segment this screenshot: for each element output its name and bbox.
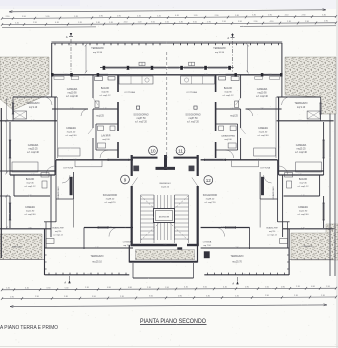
svg-text:4.10: 4.10 [55,22,59,24]
svg-text:a.f. mq2.40: a.f. mq2.40 [256,96,268,98]
left edge wall stubs [0,195,10,197]
terrace left wall ticks [45,254,47,256]
svg-text:2.90: 2.90 [235,247,238,249]
svg-text:4.10: 4.10 [124,22,128,24]
loggia wall y=227.5 [84,227,133,229]
svg-text:mq37.50: mq37.50 [188,118,198,120]
furniture in terrazzo [14,111,27,119]
facade window jambs (dark) [228,66,230,70]
svg-text:mq2.00: mq2.00 [102,139,110,141]
svg-text:BAGNO: BAGNO [299,178,308,181]
party wall y=171 left part [278,170,324,172]
svg-text:2.90: 2.90 [245,286,249,288]
svg-text:a.f. mq7.20: a.f. mq7.20 [135,121,147,123]
unit number 12 [204,176,213,185]
unit number 11 [176,146,185,155]
bagno fixtures [231,77,239,81]
svg-text:1.50: 1.50 [108,227,111,229]
svg-text:5.30: 5.30 [235,15,239,17]
camera 15.25 bottom / party wall [10,174,55,176]
camera 11.80 [323,196,325,228]
svg-text:2.10: 2.10 [137,15,141,17]
svg-text:1.50: 1.50 [164,157,167,159]
svg-text:2.10: 2.10 [6,16,10,18]
svg-text:1.20: 1.20 [109,22,113,24]
facade jamb blobs [280,73,282,76]
svg-text:4.10: 4.10 [285,14,289,16]
facade window glazing segments [106,66,126,68]
svg-text:5.20: 5.20 [28,195,31,197]
svg-text:5.30: 5.30 [46,16,50,18]
terrace width dim line [85,45,87,72]
svg-text:mq10.90: mq10.90 [257,92,267,94]
svg-text:2.90: 2.90 [28,228,31,230]
door arcs left unit [282,97,290,105]
svg-text:CAMERA: CAMERA [67,88,78,91]
left vertical dim line lower [6,196,8,228]
wardrobe camera 14.20 [254,148,276,156]
svg-text:1.20: 1.20 [301,195,304,197]
svg-text:a.f. mq2.40: a.f. mq2.40 [295,152,307,154]
svg-text:4.10: 4.10 [223,287,227,289]
small box at terrace left corner [46,239,54,244]
svg-text:5.30: 5.30 [322,14,326,16]
core right wall [197,155,199,176]
svg-text:a.f. mq7.20: a.f. mq7.20 [205,202,217,204]
stair dashed diagonals [141,196,188,240]
svg-text:TERRAZZO: TERRAZZO [91,47,104,50]
core bottom wall [131,244,178,246]
svg-text:TERRAZZO: TERRAZZO [295,102,308,105]
terrace left wall [51,43,53,75]
party wall y=171 left part [10,170,56,172]
party wall y=160 [56,159,133,161]
loggia/terrace edge y=248 [45,247,85,249]
svg-text:2.10: 2.10 [294,295,298,297]
svg-text:mq3.25: mq3.25 [230,116,238,118]
svg-text:mq37.50: mq37.50 [136,118,146,120]
bottom edge faint line [0,346,338,348]
central stair core [129,52,209,278]
svg-text:1.20: 1.20 [74,16,78,18]
radiator sills below facade [270,76,280,79]
svg-text:2.90: 2.90 [117,15,121,17]
svg-text:mq14.30: mq14.30 [259,131,268,133]
terrace top parapet with posts [51,42,166,44]
disimpegno corridor walls [277,160,279,222]
section marker A bottom-right [237,277,239,285]
stair stringer verticals [140,195,142,243]
svg-text:LOGGIA: LOGGIA [203,241,212,244]
svg-text:a.f. mq1.12: a.f. mq1.12 [267,234,277,236]
svg-text:mq38.20: mq38.20 [206,198,215,200]
svg-text:mq38.20: mq38.20 [106,198,115,200]
bottom terrace outline [204,274,289,276]
furniture in terrazzo [307,111,320,119]
svg-text:2.10: 2.10 [287,21,291,23]
svg-text:5.30: 5.30 [179,21,183,23]
dark box right of hatch band [204,252,210,259]
bottom terrace outline [45,274,130,276]
wardrobe camera 15.25 [12,162,38,172]
lav fixtures [230,126,236,131]
stair treads left flight [141,194,155,196]
svg-text:3.50: 3.50 [298,120,301,122]
svg-text:TERRAZZO: TERRAZZO [91,255,104,258]
core top walls [132,157,158,159]
corridor wall x=55 [278,97,280,175]
svg-text:1.20: 1.20 [194,15,198,17]
svg-text:mq7.45: mq7.45 [26,182,34,184]
small box at terrace left corner [280,239,288,244]
svg-text:4.10: 4.10 [25,287,29,289]
svg-text:5.20: 5.20 [31,174,34,176]
svg-text:2.40: 2.40 [164,167,167,169]
svg-text:5.20: 5.20 [70,108,73,110]
elevator box [154,209,175,223]
svg-text:2.10: 2.10 [296,286,300,288]
svg-text:3.50: 3.50 [238,21,242,23]
svg-text:DISIMPEGNO: DISIMPEGNO [58,186,60,200]
central lower box walls [128,245,130,263]
svg-text:a.f. mq2.40: a.f. mq2.40 [258,135,270,137]
svg-text:mq 7.90: mq 7.90 [203,245,211,247]
svg-text:3.50: 3.50 [149,296,153,298]
svg-text:2.90: 2.90 [268,74,271,76]
svg-text:a.f. mq2.40: a.f. mq2.40 [27,152,39,154]
svg-text:LOGGIA: LOGGIA [123,241,132,244]
svg-text:2.40: 2.40 [298,174,301,176]
svg-text:a.f. mq7.20: a.f. mq7.20 [187,121,199,123]
left upper wing [281,75,283,97]
terrazzo 9.10 bottom wall [0,120,57,122]
svg-text:CAMERA: CAMERA [298,206,308,209]
core left wall [131,155,133,176]
svg-text:2.90: 2.90 [64,74,67,76]
section marker A bottom-left [69,276,71,284]
svg-text:10: 10 [150,148,156,153]
svg-text:COTTURA: COTTURA [63,167,74,170]
scanner tint top [0,0,338,9]
svg-text:mq11.90: mq11.90 [299,210,308,212]
terrace bottom rail ticks [48,273,50,275]
svg-text:mq 9.10: mq 9.10 [29,107,38,109]
svg-text:2.40: 2.40 [126,74,129,76]
svg-text:COTTURA: COTTURA [186,91,197,94]
svg-text:mq7.20: mq7.20 [55,231,61,233]
terrace left wall ticks [287,254,289,256]
svg-text:mq15.10: mq15.10 [161,186,170,188]
small square symbol soggiorno [137,106,140,109]
svg-text:mq11.80: mq11.80 [26,210,35,212]
bagno fixtures [95,77,103,81]
core T-wall top [164,155,167,170]
left vertical dim line upper [6,99,8,173]
svg-text:mq 31.90: mq 31.90 [215,52,225,54]
svg-text:TERRAZZO: TERRAZZO [231,255,244,258]
svg-text:2.90: 2.90 [254,21,258,23]
svg-text:mq5.90: mq5.90 [101,91,109,93]
svg-text:SOGGIORNO: SOGGIORNO [103,195,118,197]
svg-text:4.10: 4.10 [175,15,179,17]
camera 15.25 bottom / party wall [279,174,324,176]
camera 11.80 [9,196,11,228]
svg-text:SOGGIORNO: SOGGIORNO [203,195,218,197]
svg-text:mq 25.70: mq 25.70 [232,262,242,264]
left upper wing [51,75,53,97]
terrace slab edge / window line y=67.6 [100,67,167,69]
svg-text:1.50: 1.50 [165,287,169,289]
kitchen counter u10 [181,76,215,84]
svg-text:2.90: 2.90 [260,108,263,110]
svg-text:1.20: 1.20 [6,288,10,290]
svg-text:0.90: 0.90 [281,286,285,288]
svg-text:3.50: 3.50 [193,21,197,23]
svg-text:BAGNO: BAGNO [224,87,233,90]
svg-text:4.10: 4.10 [184,287,188,289]
svg-text:2.10: 2.10 [85,287,89,289]
svg-text:1.50: 1.50 [165,22,169,24]
central dashed axis line [166,52,168,160]
dark boxes core upper corners [134,166,139,171]
svg-text:SOGGIORNO: SOGGIORNO [185,114,200,117]
stair treads top connector [153,195,155,208]
terrace left wall [44,229,46,275]
wall y=109 under camera/bagno [52,108,88,110]
svg-text:CAMERA: CAMERA [66,127,76,130]
svg-text:COTTURA: COTTURA [260,167,271,170]
hatched strip below core [136,250,195,260]
svg-text:a.f. mq1.12: a.f. mq1.12 [25,186,37,188]
svg-text:1.50: 1.50 [265,286,269,288]
svg-text:5.20: 5.20 [242,274,245,276]
central protrusion outline [132,263,134,278]
svg-text:2.10: 2.10 [321,295,325,297]
svg-text:4.10: 4.10 [73,159,76,161]
svg-text:5.20: 5.20 [163,244,166,246]
stipple area top-right (garden) [285,57,336,114]
kitchen counter unit 9 [75,166,102,168]
svg-text:3.50: 3.50 [151,22,155,24]
central box bottom band [129,261,197,263]
loggia wall y=227.5 [201,227,250,229]
garden bottom line [0,259,44,261]
bagno 7.45 walls [319,175,321,196]
top dimension ruler 3 [1,21,337,26]
svg-text:PIANTA PIANO SECONDO: PIANTA PIANO SECONDO [140,318,206,325]
kitchen counter u10 [119,76,153,84]
svg-text:CAMERA: CAMERA [25,206,35,209]
svg-text:mq 31.90: mq 31.90 [93,52,103,54]
svg-text:mq15.25: mq15.25 [28,148,38,150]
svg-text:2.90: 2.90 [33,22,37,24]
svg-text:SOGGIORNO: SOGGIORNO [133,114,148,117]
svg-text:1.20: 1.20 [235,295,239,297]
svg-text:a.f. mq1.12: a.f. mq1.12 [298,186,310,188]
svg-text:5.20: 5.20 [95,247,98,249]
svg-text:CAMERA: CAMERA [257,88,268,91]
svg-text:mq 9.10: mq 9.10 [297,107,306,109]
wall between camera10.90 and bagno [92,75,94,98]
thick wall x=118 soggiorno side [215,75,217,92]
stove black bar unit 9 [261,177,264,195]
terrace width dim line [247,45,249,72]
main facade inner wall y=74.8 [167,74,282,76]
wall y=109 under camera/bagno [246,108,282,110]
svg-text:DISIMPEGNO: DISIMPEGNO [273,186,275,200]
unit number 9 [121,175,130,184]
svg-text:CAMERA: CAMERA [28,144,39,147]
svg-text:2.10: 2.10 [120,296,124,298]
svg-text:BAGNO: BAGNO [26,178,35,181]
left property line [0,108,2,258]
terrazzo 9.10 bottom wall [277,120,334,122]
stair treads below elevator [153,223,155,241]
terrace bottom rail ticks [284,273,286,275]
svg-text:1.20: 1.20 [138,22,142,24]
section line A stub top-left [70,39,72,72]
svg-text:GUARD./RIP.: GUARD./RIP. [266,227,278,230]
right property double line [329,114,331,276]
svg-text:1.20: 1.20 [78,22,82,24]
svg-text:TERRAZZO: TERRAZZO [27,102,40,105]
camera 15.25 left wall [9,122,11,175]
camera 14.20 right wall [240,109,242,128]
svg-text:2.90: 2.90 [302,14,306,16]
terrace floor vent marks [189,62,195,65]
svg-text:5.30: 5.30 [64,296,68,298]
terrace top parapet with posts [167,42,282,44]
top dimension ruler 1 (overall, with arrows) [9,9,326,13]
svg-text:COTTURA: COTTURA [124,91,135,94]
svg-text:a.f. mq8.70: a.f. mq8.70 [105,202,117,204]
svg-text:CAMERA: CAMERA [296,144,307,147]
svg-text:2.90: 2.90 [207,21,211,23]
svg-text:4.10: 4.10 [230,108,233,110]
svg-text:A PIANO TERRA E PRIMO: A PIANO TERRA E PRIMO [0,325,58,331]
lav fixtures [98,126,104,131]
svg-text:a.f. mq2.40: a.f. mq2.40 [25,214,37,216]
svg-text:0.90: 0.90 [128,287,132,289]
svg-text:3.50: 3.50 [87,274,90,276]
svg-text:LAV./RIP.: LAV./RIP. [101,135,111,138]
lav/rip walls [96,123,118,125]
svg-text:5.20: 5.20 [256,159,259,161]
wing window glazing on facade [53,73,70,75]
terrace slab edge / window line y=67.6 [167,67,234,69]
svg-text:a.f. mq2.40: a.f. mq2.40 [298,214,310,216]
corridor wall x=55 [54,97,56,175]
wardrobe camera 15.25 [296,162,322,172]
svg-text:A: A [232,282,234,286]
svg-text:mq2.00: mq2.00 [224,139,232,141]
door arcs left unit [44,97,52,105]
svg-text:12: 12 [206,178,212,183]
svg-text:5.20: 5.20 [204,74,207,76]
svg-text:3.50: 3.50 [22,16,26,18]
svg-text:2.90: 2.90 [99,16,103,18]
small square symbol soggiorno [194,106,197,109]
kitchen counter unit 9 [232,166,259,168]
svg-text:5.30: 5.30 [206,295,210,297]
svg-text:mq15.25: mq15.25 [296,148,306,150]
svg-text:2.90: 2.90 [305,21,309,23]
svg-text:5.30: 5.30 [65,287,69,289]
svg-text:GIARDINO: GIARDINO [303,245,314,248]
svg-text:1.20: 1.20 [157,15,161,17]
svg-text:A: A [66,35,68,39]
svg-text:3.50: 3.50 [203,287,207,289]
svg-text:mq3.25: mq3.25 [96,116,104,118]
door leaves at core side gaps [132,178,138,187]
party wall y=160 [201,159,278,161]
svg-text:mq7.45: mq7.45 [299,182,307,184]
main facade inner wall y=74.8 [51,74,166,76]
svg-text:CAMERA: CAMERA [258,127,268,130]
svg-text:a.f. mq1.12: a.f. mq1.12 [100,95,112,97]
terrace left wall [281,43,283,75]
facade window glazing segments [208,66,228,68]
svg-text:TERRAZZO: TERRAZZO [213,47,226,50]
facade window jambs (dark) [103,66,105,70]
svg-text:a.f. mq2.40: a.f. mq2.40 [66,96,78,98]
svg-text:1.20: 1.20 [103,108,106,110]
svg-text:0.90: 0.90 [178,296,182,298]
svg-text:A: A [227,36,229,40]
svg-text:mq 7.90: mq 7.90 [123,245,131,247]
right unit walls (mirrored) [167,42,334,275]
stipple area bottom-right (garden) [291,224,338,260]
loggia/terrace edge y=248 [250,247,290,249]
garden bottom line [290,259,334,261]
svg-text:mq7.20: mq7.20 [269,231,275,233]
right edge shade [336,0,338,348]
section marker A top-right (on section line) [232,33,234,72]
svg-text:9: 9 [124,177,127,182]
wing window glazing on facade [264,73,281,75]
facade jamb blobs [51,73,53,76]
stipple area top-left (garden) [0,57,49,110]
section marker A top-left [70,33,72,36]
svg-text:1.20: 1.20 [31,120,34,122]
svg-text:2.10: 2.10 [147,287,151,289]
left unit walls [0,42,167,275]
svg-text:4.10: 4.10 [270,21,274,23]
svg-text:1.20: 1.20 [301,228,304,230]
disimpegno corridor walls [55,160,57,222]
stipple area bottom-left (garden) [0,234,42,260]
bottom dimension ruler 1 [1,287,337,291]
svg-text:INGRESSO: INGRESSO [159,183,171,185]
svg-text:mq14.20: mq14.20 [67,131,76,133]
threshold dark box at core door [178,248,183,253]
svg-text:5.30: 5.30 [96,22,100,24]
svg-text:a.f. mq1.12: a.f. mq1.12 [53,234,63,236]
svg-text:2.90: 2.90 [215,15,219,17]
svg-text:5.30: 5.30 [252,15,256,17]
bagno fixtures u9 [285,173,293,178]
camera 15.25 left wall [323,122,325,175]
radiator sills below facade [54,76,64,79]
svg-text:GUARD./RIP.: GUARD./RIP. [52,227,64,230]
svg-text:0.90: 0.90 [107,287,111,289]
svg-text:GIARDINO: GIARDINO [12,246,23,249]
svg-text:2.90: 2.90 [35,296,39,298]
svg-text:2.90: 2.90 [10,296,14,298]
top dimension ruler 2 [1,15,337,20]
wall between camera10.90 and bagno [240,75,242,98]
svg-text:3.50: 3.50 [92,296,96,298]
